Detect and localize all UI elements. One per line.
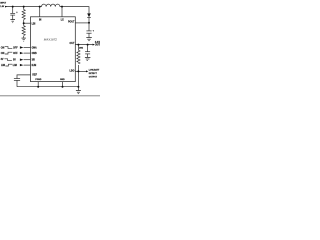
svg-text:3/5: 3/5 [32,60,36,62]
svg-text:OFF: OFF [13,53,18,55]
svg-text:ON: ON [1,47,5,49]
svg-text:OUTPUT: OUTPUT [95,45,100,47]
svg-text:MAX1672: MAX1672 [44,37,58,41]
svg-text:POUT: POUT [68,21,75,23]
svg-text:OUTPUT: OUTPUT [89,77,98,79]
svg-text:5V: 5V [13,60,16,62]
svg-text:PGND: PGND [35,79,42,81]
svg-text:GND: GND [60,79,65,81]
svg-text:IN: IN [39,19,42,21]
svg-text:OFF: OFF [13,47,18,49]
svg-text:LBI: LBI [32,23,36,25]
svg-text:LIM: LIM [13,65,17,67]
svg-text:3V: 3V [1,59,4,61]
svg-text:REF: REF [32,75,37,77]
svg-text:LBO: LBO [70,71,75,73]
svg-text:OUT: OUT [70,43,75,45]
svg-text:INPUT: INPUT [0,2,7,4]
svg-text:+: + [93,31,95,33]
svg-text:LOW-BATT: LOW-BATT [89,68,100,71]
svg-text:LX: LX [61,19,64,21]
svg-text:+: + [16,12,18,14]
svg-text:ON: ON [1,53,5,55]
svg-text:DETECT: DETECT [89,73,98,75]
svg-text:ILIM: ILIM [32,65,37,67]
svg-text:LIM: LIM [1,65,5,67]
svg-text:100k: 100k [79,47,83,49]
svg-text:3.3V/5V: 3.3V/5V [95,42,100,44]
svg-text:1.8V: 1.8V [0,6,5,8]
svg-text:ONA: ONA [32,46,37,49]
svg-text:ONB: ONB [32,53,37,55]
